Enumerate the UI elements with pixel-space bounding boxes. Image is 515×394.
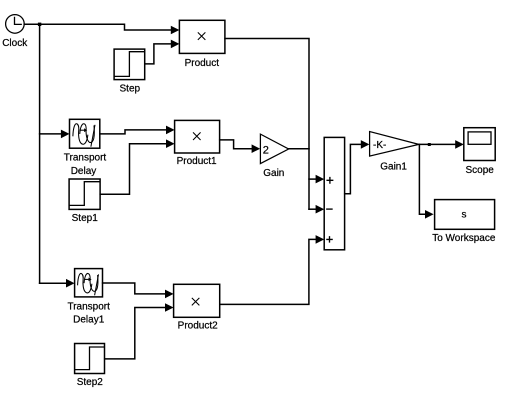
step source block Step1 (69, 179, 100, 209)
arrowhead into Sum input 2 (316, 205, 325, 214)
wire Gain output joins vertical (289, 148, 309, 150)
svg-text:Product2: Product2 (178, 321, 218, 332)
svg-text:2: 2 (263, 145, 269, 157)
wire Product2 output to Sum input 3 (220, 239, 316, 304)
arrowhead into Scope (455, 140, 464, 149)
svg-text:-K-: -K- (373, 140, 386, 151)
svg-text:Clock: Clock (2, 38, 28, 49)
to-workspace block To Workspace (435, 200, 495, 230)
arrowhead into Sum input 3 (316, 235, 325, 244)
arrowhead into Gain (252, 144, 261, 153)
arrowhead into Product1 input 1 (166, 126, 175, 135)
wire Product1 to Gain (220, 140, 252, 149)
arrowhead into Product input 1 (171, 26, 180, 35)
svg-text:Delay: Delay (71, 166, 97, 177)
wire Product output to sum vertical (225, 39, 309, 210)
wire Clock to junction and Product input 1 (24, 24, 171, 30)
svg-text:Product1: Product1 (177, 156, 217, 167)
gain block Gain (260, 134, 288, 164)
product block Product1 (175, 120, 220, 153)
svg-text:Step1: Step1 (72, 213, 99, 224)
svg-text:Delay1: Delay1 (73, 315, 105, 326)
wire branch to Transport Delay (40, 133, 62, 135)
arrowhead into Product1 input 2 (166, 139, 175, 148)
svg-text:Step2: Step2 (77, 377, 104, 388)
wire branch into Sum input 1 (309, 178, 316, 180)
arrowhead into Product2 input 1 (165, 290, 174, 299)
svg-text:Product: Product (185, 58, 220, 69)
arrowhead into Gain1 (361, 140, 370, 149)
wire Gain1 output to Scope (419, 143, 456, 145)
product block Product2 (174, 284, 220, 317)
junction node dot at clock branch (38, 23, 41, 26)
svg-text:Gain1: Gain1 (380, 162, 407, 173)
wire Sum output to Gain1 (345, 144, 361, 193)
svg-text:Step: Step (120, 84, 141, 95)
arrowhead into Product input 2 (171, 40, 180, 49)
transport delay block Transport Delay1 (75, 269, 103, 297)
arrowhead into Transport Delay (61, 130, 70, 139)
svg-text:s: s (462, 209, 467, 220)
svg-text:Scope: Scope (466, 165, 495, 176)
junction node dot on Gain1 output (428, 143, 431, 146)
wire Step1 to Product1 input 2 (100, 144, 166, 195)
wire Transport Delay1 to Product2 input 1 (103, 283, 166, 294)
clock block Clock (6, 15, 25, 34)
step source block Step2 (75, 344, 105, 374)
product block Product (179, 20, 225, 53)
step source block Step (114, 49, 145, 80)
arrowhead into Sum input 1 (316, 175, 325, 184)
svg-text:Gain: Gain (263, 168, 284, 179)
transport delay block Transport Delay (70, 119, 100, 148)
wire clock vertical trunk (39, 24, 41, 283)
svg-text:Transport: Transport (64, 153, 107, 164)
arrowhead into Transport Delay1 (66, 279, 75, 288)
svg-text:Transport: Transport (67, 301, 110, 312)
wire branch to Transport Delay1 (40, 282, 67, 284)
sum block Sum (324, 137, 344, 249)
wire branch down to To Workspace (419, 144, 425, 214)
arrowhead into To Workspace (425, 210, 434, 219)
wire Step to Product input 2 (145, 44, 172, 64)
svg-text:To Workspace: To Workspace (432, 233, 496, 244)
wire Step2 to Product2 input 2 (105, 308, 166, 359)
arrowhead into Product2 input 2 (165, 303, 174, 312)
wire Transport Delay to Product1 input 1 (100, 130, 166, 134)
wire branch into Sum input 2 (309, 208, 316, 210)
scope block Scope (464, 128, 495, 161)
gain block Gain1 (370, 132, 419, 157)
